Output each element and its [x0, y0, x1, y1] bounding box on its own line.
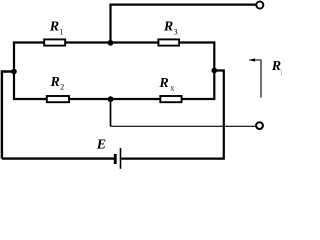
- svg-text:x: x: [170, 84, 174, 93]
- svg-text:3: 3: [174, 28, 178, 37]
- wire: node A link to outer left vertical: [2, 72, 14, 159]
- svg-text:i: i: [281, 69, 282, 78]
- arrowhead of Ri indicator: [249, 58, 256, 61]
- svg-text:R: R: [158, 76, 168, 91]
- arrow indicator for Ri: [249, 60, 261, 98]
- node C junction dot: [108, 96, 114, 102]
- svg-text:R: R: [163, 20, 173, 35]
- svg-text:E: E: [96, 138, 106, 153]
- svg-text:R: R: [50, 75, 60, 90]
- wire: R2 right to node C to Rx left: [69, 98, 160, 100]
- resistor R1: [44, 39, 65, 45]
- node B junction dot: [108, 40, 114, 46]
- node D junction dot (right vertical): [211, 68, 217, 74]
- svg-text:R: R: [271, 59, 281, 74]
- terminal T1: [256, 1, 263, 8]
- svg-text:1: 1: [59, 28, 63, 37]
- wire: R3 right, right vertical, Rx right stub: [179, 43, 214, 100]
- svg-text:2: 2: [60, 83, 64, 92]
- wire: top wire node B to terminal T1: [111, 5, 256, 43]
- terminal T2: [256, 122, 263, 129]
- resistor R2: [47, 96, 69, 102]
- wire: bottom wire left of battery E: [2, 157, 114, 159]
- battery E positive plate (long thin): [120, 148, 122, 169]
- resistor R3: [158, 39, 179, 45]
- wire: thin wire to terminal T2: [111, 125, 256, 127]
- wire: R1 right to node B to R3 left: [65, 41, 158, 43]
- wire: node A left branch (R1 row left, inner vertical, R2 row left): [14, 43, 47, 100]
- wire: node D branch to outer right vertical down to bottom wire: [121, 71, 224, 159]
- resistor Rx: [160, 96, 181, 102]
- node A junction dot: [11, 69, 17, 75]
- wire: node C drop to terminal row: [110, 99, 112, 126]
- svg-text:R: R: [49, 20, 59, 35]
- battery E negative plate (short thick): [114, 154, 117, 164]
